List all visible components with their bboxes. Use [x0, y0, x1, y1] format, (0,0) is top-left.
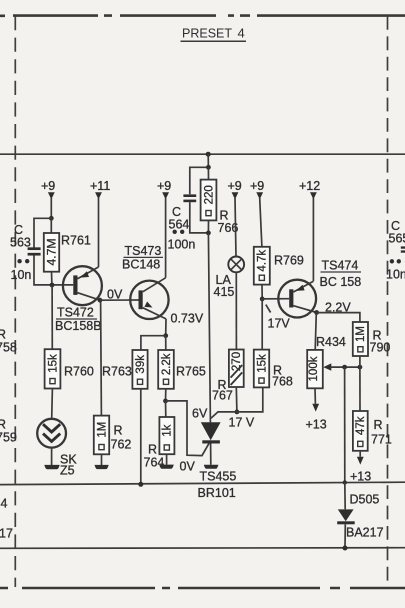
wire gate from R765 node [166, 401, 211, 456]
svg-text:+13: +13 [306, 418, 327, 432]
node wiper junction B [358, 365, 363, 370]
resistor R771 47k [353, 411, 392, 451]
wire R790 bottom to wiper node [359, 356, 361, 367]
supply +12 feed [299, 179, 320, 281]
wire base node to TS474 [262, 298, 289, 300]
wire rail top [0, 153, 405, 155]
svg-text:0.73V: 0.73V [171, 312, 204, 326]
svg-text:+9: +9 [250, 179, 264, 193]
svg-text:100n: 100n [168, 238, 196, 252]
svg-text:759: 759 [0, 431, 17, 445]
svg-text:R760: R760 [64, 365, 94, 379]
border bottom dashed [0, 587, 405, 590]
svg-text:762: 762 [111, 438, 132, 452]
wire emitter node down to R765 [165, 336, 167, 350]
svg-text:565: 565 [389, 232, 405, 246]
svg-text:+13: +13 [350, 470, 371, 484]
wire rail bottom [0, 547, 405, 550]
supply +9 feed lamp [228, 179, 242, 257]
label R758 margin [0, 328, 17, 355]
svg-text:758: 758 [0, 341, 17, 355]
label 17V tick [266, 305, 271, 313]
wire +9 junction down to R761 [50, 218, 52, 233]
wire wiper node down to R771 [359, 367, 361, 411]
svg-text:10n: 10n [11, 268, 32, 282]
wire R764 to ground [166, 454, 168, 465]
supply +9 feed 3 [250, 179, 264, 247]
supply +9 feed 1 [41, 179, 55, 218]
svg-text:15k: 15k [256, 354, 268, 373]
resistor R765 2.2k [158, 350, 206, 389]
wire wiper node down to rail [344, 367, 346, 482]
label R759 margin [0, 418, 17, 445]
node rail junction D505 top [343, 480, 347, 484]
wire R765 bottom to node [165, 389, 167, 401]
node parallel top junction [206, 165, 211, 170]
svg-text:PRESET: PRESET [182, 26, 232, 41]
svg-text:1k: 1k [162, 424, 174, 436]
svg-text:BA217: BA217 [346, 526, 384, 540]
wire SK to ground [51, 448, 53, 465]
node TS473 emitter junction [163, 333, 168, 338]
svg-text:R769: R769 [274, 254, 304, 268]
node rail junction R763 [138, 482, 143, 487]
svg-text:R: R [0, 328, 6, 342]
svg-text:0V: 0V [180, 460, 196, 474]
node wiper junction A [342, 365, 347, 370]
wire R762 to ground [101, 454, 103, 465]
svg-text:17: 17 [0, 527, 13, 541]
wire R767 to 17V node [235, 387, 238, 412]
wire C563 bottom to base node [34, 256, 73, 285]
node rail-top junction [206, 152, 211, 157]
svg-text:1M: 1M [96, 422, 108, 438]
ground under R764 [159, 465, 174, 469]
svg-text:BC158B: BC158B [55, 319, 102, 333]
svg-text:4: 4 [238, 26, 245, 41]
wire rail to parallel node [207, 154, 209, 167]
capacitor C565 edge [386, 219, 405, 282]
svg-text:BC148: BC148 [122, 258, 160, 272]
svg-text:R765: R765 [176, 365, 206, 379]
svg-text:563: 563 [10, 236, 31, 250]
svg-text:100k: 100k [308, 356, 320, 381]
wire emitter node left to R763 [141, 336, 166, 350]
svg-text:4.7M: 4.7M [44, 238, 58, 265]
svg-text:790: 790 [370, 341, 391, 355]
resistor R790 1M [353, 322, 391, 356]
svg-text:768: 768 [272, 375, 293, 389]
wire R769 to base node [261, 285, 263, 299]
wire 0V node to TS473 base [100, 299, 139, 301]
ground under SK [44, 465, 59, 469]
supply +9 feed 2 [157, 179, 171, 278]
lamp LA415 [214, 257, 245, 300]
resistor R766 220 [201, 167, 239, 235]
svg-text:10n: 10n [386, 268, 405, 282]
supply +13 under R434 [306, 404, 327, 432]
surge arrester SK Z5 [37, 419, 77, 478]
border right dashed [387, 16, 389, 589]
resistor R763 39k [102, 350, 148, 389]
node 17V junction [235, 410, 240, 415]
resistor R768 15k [254, 350, 293, 389]
supply +13 under R771 [350, 457, 371, 484]
svg-text:6V: 6V [192, 407, 208, 421]
svg-text:47k: 47k [355, 416, 367, 435]
border top dashed [0, 14, 405, 17]
node TS474 collector junction [314, 310, 319, 315]
svg-text:TS473: TS473 [125, 244, 162, 258]
svg-text:Z5: Z5 [60, 464, 75, 478]
node +9 split junction [49, 216, 54, 221]
diode D505 BA217 [337, 483, 383, 549]
resistor R762 1M [94, 416, 132, 455]
wire base node down to R768 [261, 299, 263, 350]
svg-text:R: R [148, 443, 157, 457]
svg-text:TS474: TS474 [322, 259, 359, 273]
svg-text:R: R [0, 418, 6, 432]
border left dashed [14, 16, 16, 587]
title PRESET 4 [181, 26, 247, 42]
wire collector down to R434 [315, 313, 316, 350]
svg-text:+12: +12 [299, 179, 320, 193]
wire R760 to SK [51, 389, 54, 419]
wire 17V node to R768 [237, 387, 263, 412]
svg-text:R: R [114, 424, 123, 438]
resistor R769 4.7k [254, 247, 304, 285]
capacitor C564 [168, 167, 209, 251]
svg-text:2.2k: 2.2k [161, 353, 173, 375]
resistor R761 4.7M [44, 233, 91, 272]
thyristor TS455 BR101 [198, 422, 237, 500]
svg-text:564: 564 [169, 218, 190, 232]
resistor R767 270 [212, 350, 244, 403]
svg-text:R763: R763 [102, 365, 132, 379]
svg-text:17V: 17V [268, 317, 291, 331]
wire junction to C563 branch [34, 218, 51, 247]
node TS474 base junction [260, 297, 265, 302]
svg-text:D505: D505 [350, 493, 380, 507]
potentiometer R434 100k [307, 350, 360, 388]
wire 17V node to anode [211, 412, 237, 418]
svg-text:BR101: BR101 [198, 486, 236, 500]
wire anode vertical [208, 233, 210, 423]
wire lamp to R767 [235, 272, 237, 349]
ground under R762 [95, 465, 109, 469]
node 0V junction TS472 emitter [98, 298, 103, 303]
wire R434 bottom to +13 [314, 388, 316, 404]
svg-text:771: 771 [371, 433, 392, 447]
wire R771 bottom to +13 [359, 451, 361, 457]
svg-text:220: 220 [203, 185, 215, 204]
svg-text:+9: +9 [41, 179, 55, 193]
wire R763 down to rail [140, 389, 142, 485]
svg-text:415: 415 [214, 285, 235, 299]
node rail bottom junction [343, 546, 348, 551]
supply +11 feed [90, 179, 110, 267]
svg-text:R: R [374, 418, 383, 432]
svg-text:1M: 1M [355, 326, 367, 342]
transistor TS473 BC148 [122, 244, 169, 319]
svg-text:39k: 39k [135, 355, 147, 374]
resistor R764 1k [144, 417, 175, 470]
svg-text:+9: +9 [157, 179, 171, 193]
node base junction [50, 283, 55, 288]
wire collector to R790 [317, 313, 360, 322]
node R765 bottom junction [163, 399, 168, 404]
wire node down to R764 [165, 401, 167, 417]
wire 0V node down to R762 [100, 300, 103, 415]
transistor TS474 BC158 [278, 259, 361, 318]
svg-text:TS472: TS472 [57, 306, 94, 320]
wire rail middle [0, 482, 405, 484]
svg-text:767: 767 [212, 389, 233, 403]
svg-text:+9: +9 [228, 179, 242, 193]
wire R761 bottom to base node [51, 272, 53, 285]
wire base node down to R760 [51, 285, 53, 349]
svg-text:+11: +11 [90, 179, 110, 193]
wire TS473 emitter down [165, 319, 167, 336]
svg-text:R761: R761 [61, 234, 91, 248]
svg-text:R434: R434 [316, 335, 346, 349]
svg-text:TS455: TS455 [200, 470, 237, 484]
ground under thyristor [204, 465, 219, 469]
svg-text:4.7k: 4.7k [257, 250, 269, 272]
capacitor C563 [10, 223, 41, 282]
transistor TS472 BC158B [55, 266, 102, 333]
node parallel bottom junction [206, 231, 211, 236]
svg-text:15k: 15k [47, 354, 59, 373]
svg-text:270: 270 [231, 352, 243, 371]
svg-text:BC 158: BC 158 [320, 275, 362, 289]
svg-text:4: 4 [1, 497, 8, 511]
resistor R760 15k [45, 349, 94, 388]
svg-text:17 V: 17 V [229, 416, 255, 430]
